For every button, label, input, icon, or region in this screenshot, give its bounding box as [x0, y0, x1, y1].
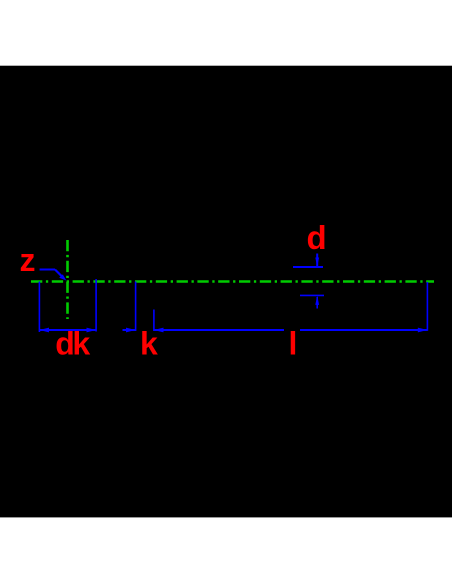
svg-text:l: l	[289, 326, 298, 362]
svg-text:z: z	[20, 242, 36, 278]
svg-text:k: k	[140, 325, 158, 361]
svg-text:dk: dk	[55, 325, 90, 361]
svg-text:d: d	[307, 219, 327, 256]
